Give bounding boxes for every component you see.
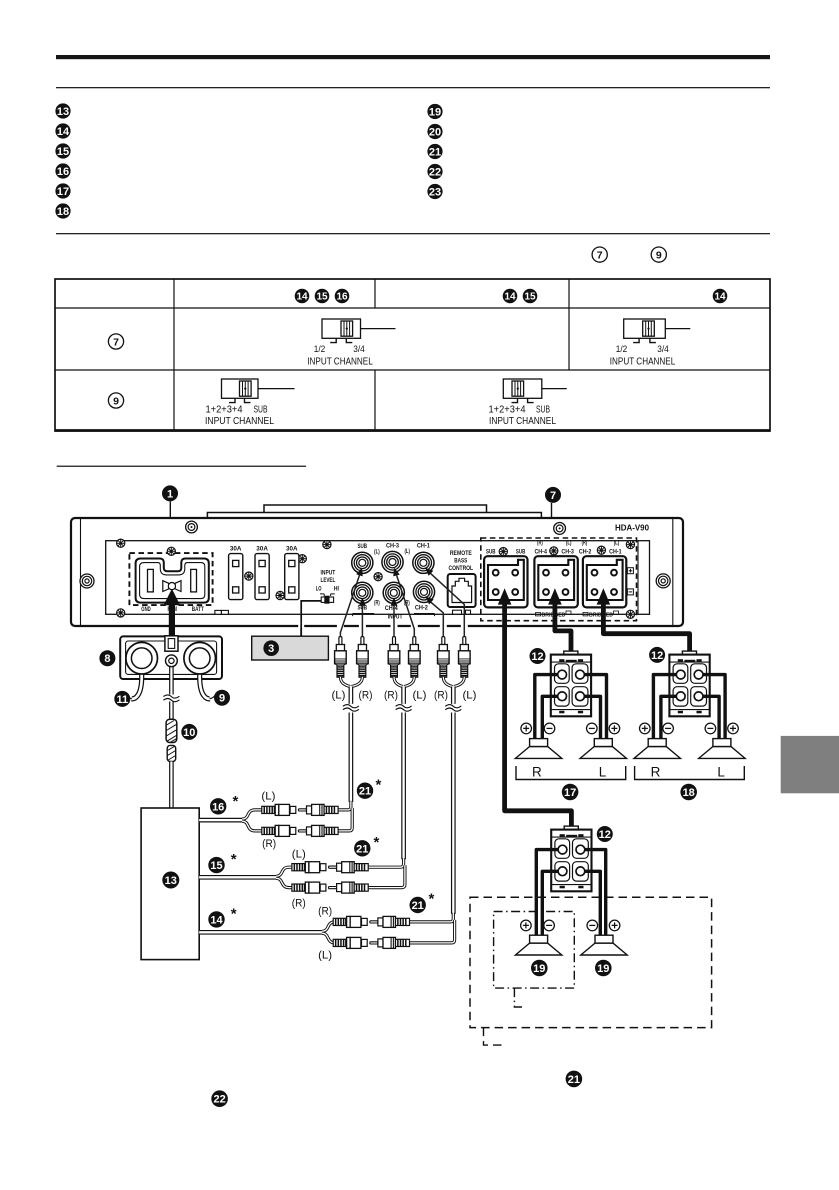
speaker L (rear) [699, 739, 745, 759]
svg-text:17: 17 [57, 186, 69, 198]
svg-text:(L): (L) [614, 539, 620, 546]
cable length break symbol [445, 705, 461, 712]
wire block to left speaker + [536, 850, 562, 937]
battery wire (9) [200, 660, 210, 699]
svg-text:L: L [599, 765, 607, 780]
svg-text:8: 8 [104, 653, 110, 665]
callout 12 rear [649, 647, 665, 663]
svg-text:INPUT: INPUT [321, 570, 336, 577]
svg-text:13: 13 [165, 875, 177, 887]
plug labels [332, 690, 477, 702]
chassis screw top-right [554, 523, 566, 535]
wire block to right speaker - [699, 696, 720, 741]
cable pair SUB merge [340, 677, 350, 687]
remote wire to fuse holder [169, 702, 174, 720]
callout 10 [181, 724, 197, 740]
svg-text:7: 7 [550, 490, 556, 502]
callout 19 left [531, 960, 548, 977]
legend callout 15 [55, 143, 70, 158]
polarity marks front [521, 723, 532, 734]
panel screw A [117, 539, 125, 547]
callout 21 a [357, 783, 373, 799]
svg-text:17: 17 [564, 787, 576, 799]
svg-text:SUB: SUB [486, 549, 496, 556]
input channel switch (row7 col2) [322, 319, 396, 343]
svg-text:(L): (L) [413, 690, 427, 702]
table header callout 15 [315, 289, 330, 304]
cable bend to lower branch [368, 865, 405, 887]
svg-text:*: * [231, 906, 237, 923]
leader line callout 7 [551, 503, 553, 538]
svg-text:(L): (L) [374, 549, 380, 556]
callout 1 (power connector) [162, 485, 178, 501]
signal wire plug3 to CH-4 [393, 599, 395, 637]
head unit output cable 15 [199, 875, 277, 880]
svg-text:CH-2: CH-2 [415, 605, 428, 612]
table row callout 7 [108, 334, 123, 349]
amp bottom edge wire gaps [337, 624, 344, 628]
RCA plug 4 (L) [409, 637, 421, 678]
head unit output cable 14 [199, 930, 323, 935]
svg-text:(R): (R) [318, 906, 332, 918]
svg-text:14: 14 [210, 914, 223, 926]
bracket rear speakers [635, 766, 745, 780]
dashed continuation [484, 1028, 506, 1046]
remote wire to head unit [169, 762, 174, 809]
svg-text:9: 9 [113, 395, 119, 407]
svg-text:(L): (L) [566, 539, 572, 546]
subwoofer left (19) [515, 935, 561, 955]
polarity marks rear [640, 723, 651, 734]
svg-text:30A: 30A [286, 546, 298, 553]
legend callout 17 [55, 183, 70, 198]
svg-text:CH-4: CH-4 [385, 605, 398, 612]
legend callout 20 [427, 124, 442, 139]
distribution block 12 (front) [551, 651, 591, 716]
wire block to left speaker - [661, 696, 681, 741]
input channel switch (row9 col2) [222, 379, 295, 403]
callout 19 right [595, 960, 612, 977]
RCA input jack CH-3 [382, 551, 403, 572]
power terminal connector [136, 559, 209, 603]
leader line callout 1 [169, 502, 171, 550]
svg-text:15: 15 [524, 292, 536, 303]
speaker cable SUB (arrow up into SUB terminal) [498, 588, 512, 604]
callout 22 bottom [211, 1090, 228, 1107]
callout 7 (table note) [592, 247, 607, 262]
speaker R (front) [515, 739, 561, 759]
svg-text:R: R [651, 765, 661, 780]
polarity squares [627, 568, 633, 595]
panel screw B [117, 609, 125, 617]
svg-text:12: 12 [599, 829, 611, 841]
svg-text:HDA-V90: HDA-V90 [615, 523, 650, 532]
terminal label screws [499, 548, 507, 556]
svg-text:*: * [374, 834, 380, 851]
svg-text:23: 23 [429, 187, 441, 199]
svg-text:1/2: 1/2 [314, 344, 326, 355]
svg-text:CH-1: CH-1 [609, 549, 622, 556]
inline fuse holder (10) [166, 719, 177, 761]
power cable arrow into amp [164, 589, 181, 606]
fork lower branch [242, 821, 263, 831]
wire block to left speaker + [535, 675, 562, 741]
svg-text:21: 21 [568, 1074, 580, 1086]
svg-text:SUB: SUB [358, 543, 368, 550]
svg-text:19: 19 [429, 107, 441, 119]
table row callout 9 [108, 393, 123, 408]
callout 21 b [354, 840, 370, 856]
svg-text:(L): (L) [292, 849, 306, 861]
svg-text:(R): (R) [537, 539, 543, 546]
RCA input jack SUB R [352, 582, 373, 603]
speaker L (front) [580, 739, 626, 759]
ring terminal REM [166, 655, 178, 667]
svg-text:INPUT CHANNEL: INPUT CHANNEL [307, 357, 373, 368]
svg-text:BASS: BASS [454, 558, 467, 565]
outer dashed enclosure box [470, 897, 712, 1027]
wire block to right speaker - [580, 871, 600, 937]
head unit box (13) [141, 808, 199, 960]
branch channel labels [261, 791, 332, 962]
RCA plug 5 (R) [438, 637, 450, 678]
svg-text:21: 21 [412, 900, 424, 912]
svg-text:7: 7 [597, 249, 603, 261]
panel screw D [276, 591, 284, 599]
table header callout 14c [713, 289, 728, 304]
signal wire plug2 to SUB R [361, 599, 363, 637]
RCA plug 3 (R) [388, 637, 400, 678]
table header callout 14b [503, 289, 518, 304]
remote bass control jack [448, 574, 476, 614]
svg-text:13: 13 [57, 106, 69, 118]
svg-text:3/4: 3/4 [657, 344, 669, 355]
settings table frame [55, 279, 770, 431]
dashed box corner screws [626, 541, 634, 549]
svg-text:L: L [717, 765, 725, 780]
svg-text:10: 10 [183, 727, 195, 739]
cable bend to upper branch [410, 913, 454, 922]
legend callout 23 [427, 184, 442, 199]
section rule [56, 233, 770, 234]
RCA junction 15 L [292, 862, 368, 873]
legend callout 18 [55, 203, 70, 218]
wire block to right speaker + [699, 675, 726, 741]
callout 9 [214, 690, 230, 706]
callout 21 bottom [566, 1071, 583, 1088]
fork upper branch [322, 922, 335, 931]
power connector screw [167, 547, 175, 555]
callout 9 (table note) [651, 247, 666, 262]
cable pair CH-1/2 merge [443, 677, 452, 687]
svg-text:22: 22 [429, 167, 441, 179]
RCA junction 16 L [262, 804, 338, 815]
svg-text:9: 9 [656, 249, 662, 261]
fuse 1 30A [229, 554, 243, 600]
power plug housing [120, 636, 222, 679]
legend callout 19 [427, 104, 442, 119]
svg-text:1+2+3+4: 1+2+3+4 [206, 405, 244, 416]
wire block to left speaker - [542, 696, 562, 741]
RCA junction 16 R [262, 825, 338, 836]
callout 21 c [410, 897, 426, 913]
ring terminal BATT [184, 642, 216, 674]
power terminal dashed outline [129, 553, 212, 605]
svg-text:12: 12 [531, 651, 543, 663]
inner dash-dot box [494, 912, 575, 989]
panel screw F [323, 541, 331, 549]
leader line to callout 3 [301, 601, 321, 636]
RCA junction 15 R [292, 882, 368, 893]
svg-text:INPUT CHANNEL: INPUT CHANNEL [205, 416, 274, 427]
svg-text:INPUT CHANNEL: INPUT CHANNEL [610, 357, 676, 368]
svg-text:1: 1 [167, 488, 173, 500]
svg-text:(R): (R) [384, 690, 398, 702]
fork lower branch [276, 878, 293, 887]
svg-text:GND: GND [141, 606, 151, 613]
fork upper branch [242, 810, 263, 819]
speaker terminal CH-4/CH-3 [534, 556, 577, 607]
legend callout 14 [55, 123, 70, 138]
callout 12 front [530, 648, 546, 664]
svg-text:16: 16 [212, 801, 224, 813]
ring terminal GND [126, 642, 158, 674]
distribution block 12 (rear) [669, 651, 709, 716]
amplifier connector panel [106, 541, 650, 615]
svg-text:HI: HI [334, 586, 339, 593]
svg-text:15: 15 [316, 292, 328, 303]
callout 7 (speaker outputs) [545, 487, 561, 503]
wire block to right speaker - [580, 696, 601, 741]
svg-text:14: 14 [504, 292, 516, 303]
panel bottom label mark [215, 610, 229, 614]
wire block to left speaker - [542, 871, 562, 937]
subwoofer right (19) [581, 935, 627, 955]
cable bend to lower branch [410, 920, 455, 943]
svg-text:CONTROL: CONTROL [449, 565, 474, 572]
legend callout 13 [55, 103, 70, 118]
callout 18 [680, 784, 697, 801]
cable length break symbol [396, 705, 412, 712]
panel screw C [245, 572, 253, 580]
RCA plug 6 (L) [459, 637, 471, 678]
svg-text:REMOTE: REMOTE [450, 550, 472, 557]
callout 11 [114, 691, 130, 707]
svg-text:22: 22 [213, 1094, 225, 1106]
svg-text:15: 15 [57, 146, 69, 158]
RCA input jack CH-4 [383, 582, 404, 603]
svg-text:15: 15 [210, 860, 222, 872]
dash-dot continuation [514, 988, 523, 1007]
RCA input jack SUB L [352, 552, 373, 573]
signal wire plug4 to CH-3 [395, 570, 415, 637]
svg-text:CH-4: CH-4 [534, 549, 547, 556]
bracket front speakers [516, 766, 626, 780]
RCA extension cable CH-1/2 vertical run [451, 687, 456, 704]
svg-text:LO: LO [316, 586, 322, 593]
signal wire plug1 to SUB L [340, 570, 361, 637]
svg-text:14: 14 [296, 292, 308, 303]
table header callout 15b [523, 289, 538, 304]
callout 13 [162, 872, 179, 889]
svg-text:CH-2: CH-2 [579, 549, 592, 556]
speaker cable CH-4/CH-3 [548, 588, 562, 604]
RCA extension cable CH-3/4 vertical run [401, 687, 406, 704]
svg-text:16: 16 [57, 166, 69, 178]
speaker terminal SUB/SUB [484, 556, 527, 607]
svg-text:(R): (R) [434, 690, 448, 702]
speaker terminal CH-2/CH-1 [583, 556, 626, 607]
svg-text:SUB: SUB [516, 549, 526, 556]
svg-text:7: 7 [113, 336, 119, 348]
svg-text:20: 20 [429, 127, 441, 139]
svg-text:R: R [532, 765, 542, 780]
svg-text:18: 18 [683, 787, 695, 799]
signal wire plug6 to CH-1 [427, 570, 465, 637]
RCA junction 14 L [333, 937, 409, 948]
svg-text:(L): (L) [261, 791, 275, 803]
RCA junction 14 R [333, 916, 409, 927]
svg-text:(R): (R) [262, 838, 276, 850]
fuse 3 30A [285, 554, 299, 600]
top thin rule [56, 87, 770, 88]
svg-text:*: * [429, 891, 435, 908]
svg-text:12: 12 [651, 650, 663, 662]
ground wire (11) [132, 660, 142, 699]
wire break squiggle [163, 695, 179, 702]
legend callout 21 [427, 144, 442, 159]
svg-text:INPUT: INPUT [388, 614, 403, 621]
svg-text:3/4: 3/4 [353, 344, 365, 355]
panel screw G [374, 573, 382, 581]
panel screw E [298, 555, 306, 563]
svg-text:CH-3: CH-3 [386, 543, 399, 550]
signal wire plug5 to CH-2 [427, 599, 444, 637]
svg-text:(L): (L) [463, 690, 477, 702]
svg-text:LEVEL: LEVEL [321, 577, 336, 584]
svg-text:INPUT CHANNEL: INPUT CHANNEL [489, 416, 556, 427]
callout 12 sub [597, 826, 613, 842]
svg-text:*: * [231, 851, 237, 868]
input channel switch (row9 col3) [503, 379, 567, 403]
svg-text:(L): (L) [404, 548, 410, 555]
head unit output cable 16 [199, 818, 243, 823]
amplifier end caps [81, 519, 673, 625]
remote wire upper [169, 664, 174, 695]
input channel switch (row7 col4) [624, 319, 691, 343]
svg-text:3: 3 [268, 643, 274, 655]
callout box 3 (input level) [252, 636, 329, 660]
polarity marks sub [521, 920, 532, 931]
callout 16 [210, 798, 226, 814]
RCA plug 1 (L) [335, 637, 347, 678]
svg-text:CH-3: CH-3 [561, 549, 574, 556]
svg-text:18: 18 [57, 206, 69, 218]
table header callout 14 [295, 289, 310, 304]
svg-text:1/2: 1/2 [616, 344, 628, 355]
RCA input jack CH-2 [413, 581, 434, 602]
speaker output dashed outline [481, 538, 637, 621]
chassis screw right [656, 574, 670, 588]
speaker cable CH-2/CH-1 [597, 588, 611, 604]
svg-text:*: * [376, 777, 382, 794]
svg-text:21: 21 [359, 786, 371, 798]
table header callout 16 [335, 289, 350, 304]
svg-text:14: 14 [57, 126, 70, 138]
svg-text:11: 11 [116, 694, 128, 706]
cable bend to upper branch [368, 858, 403, 867]
distribution block 12 (sub) [551, 826, 591, 891]
svg-text:CH-1: CH-1 [417, 543, 430, 550]
RCA plug 2 (R) [357, 637, 369, 678]
svg-text:1+2+3+4: 1+2+3+4 [489, 405, 527, 416]
svg-text:(R): (R) [582, 539, 588, 546]
fork lower branch [322, 933, 335, 943]
callout 15 [208, 857, 224, 873]
svg-text:SUB: SUB [254, 405, 268, 416]
svg-text:*: * [233, 793, 239, 810]
svg-text:30A: 30A [256, 546, 268, 553]
cable bend to lower branch [338, 808, 352, 831]
page edge gray tab [781, 736, 839, 793]
wire block to right speaker + [580, 675, 607, 741]
input level switch [320, 594, 335, 604]
legend callout 16 [55, 163, 70, 178]
svg-text:19: 19 [597, 963, 609, 975]
cable length break symbol [343, 705, 359, 712]
cable bend to upper branch [338, 801, 351, 810]
svg-text:(R): (R) [374, 600, 380, 607]
svg-text:(R): (R) [292, 898, 306, 910]
svg-text:9: 9 [219, 693, 225, 705]
svg-text:(R): (R) [359, 690, 373, 702]
svg-text:(L): (L) [332, 690, 346, 702]
callout 8 [99, 650, 115, 666]
RCA input jack CH-1 [413, 552, 434, 573]
cable pair CH-3/4 merge [394, 677, 403, 687]
svg-text:14: 14 [714, 292, 726, 303]
svg-text:(L): (L) [318, 950, 332, 962]
svg-text:SUB: SUB [536, 405, 550, 416]
wire block to right speaker + [580, 850, 605, 937]
svg-text:21: 21 [356, 843, 368, 855]
svg-text:21: 21 [429, 147, 441, 159]
legend callout 22 [427, 164, 442, 179]
callout 14 [208, 911, 224, 927]
fuse 2 30A [255, 554, 269, 600]
amplifier body HDA-V90 [71, 505, 683, 626]
svg-text:BATT: BATT [192, 606, 204, 613]
top thick rule [56, 55, 770, 59]
svg-text:19: 19 [533, 963, 545, 975]
RCA extension cable SUB vertical run [349, 687, 354, 704]
chassis screw left [80, 574, 94, 588]
svg-text:16: 16 [336, 292, 348, 303]
wire block to left speaker + [653, 675, 680, 741]
fork upper branch [276, 867, 293, 876]
speaker R (rear) [634, 739, 680, 759]
diagram heading rule [57, 466, 306, 467]
svg-text:30A: 30A [230, 546, 242, 553]
callout 17 [562, 784, 579, 801]
chassis screw top-left [186, 521, 198, 533]
bridged marks [536, 611, 619, 619]
